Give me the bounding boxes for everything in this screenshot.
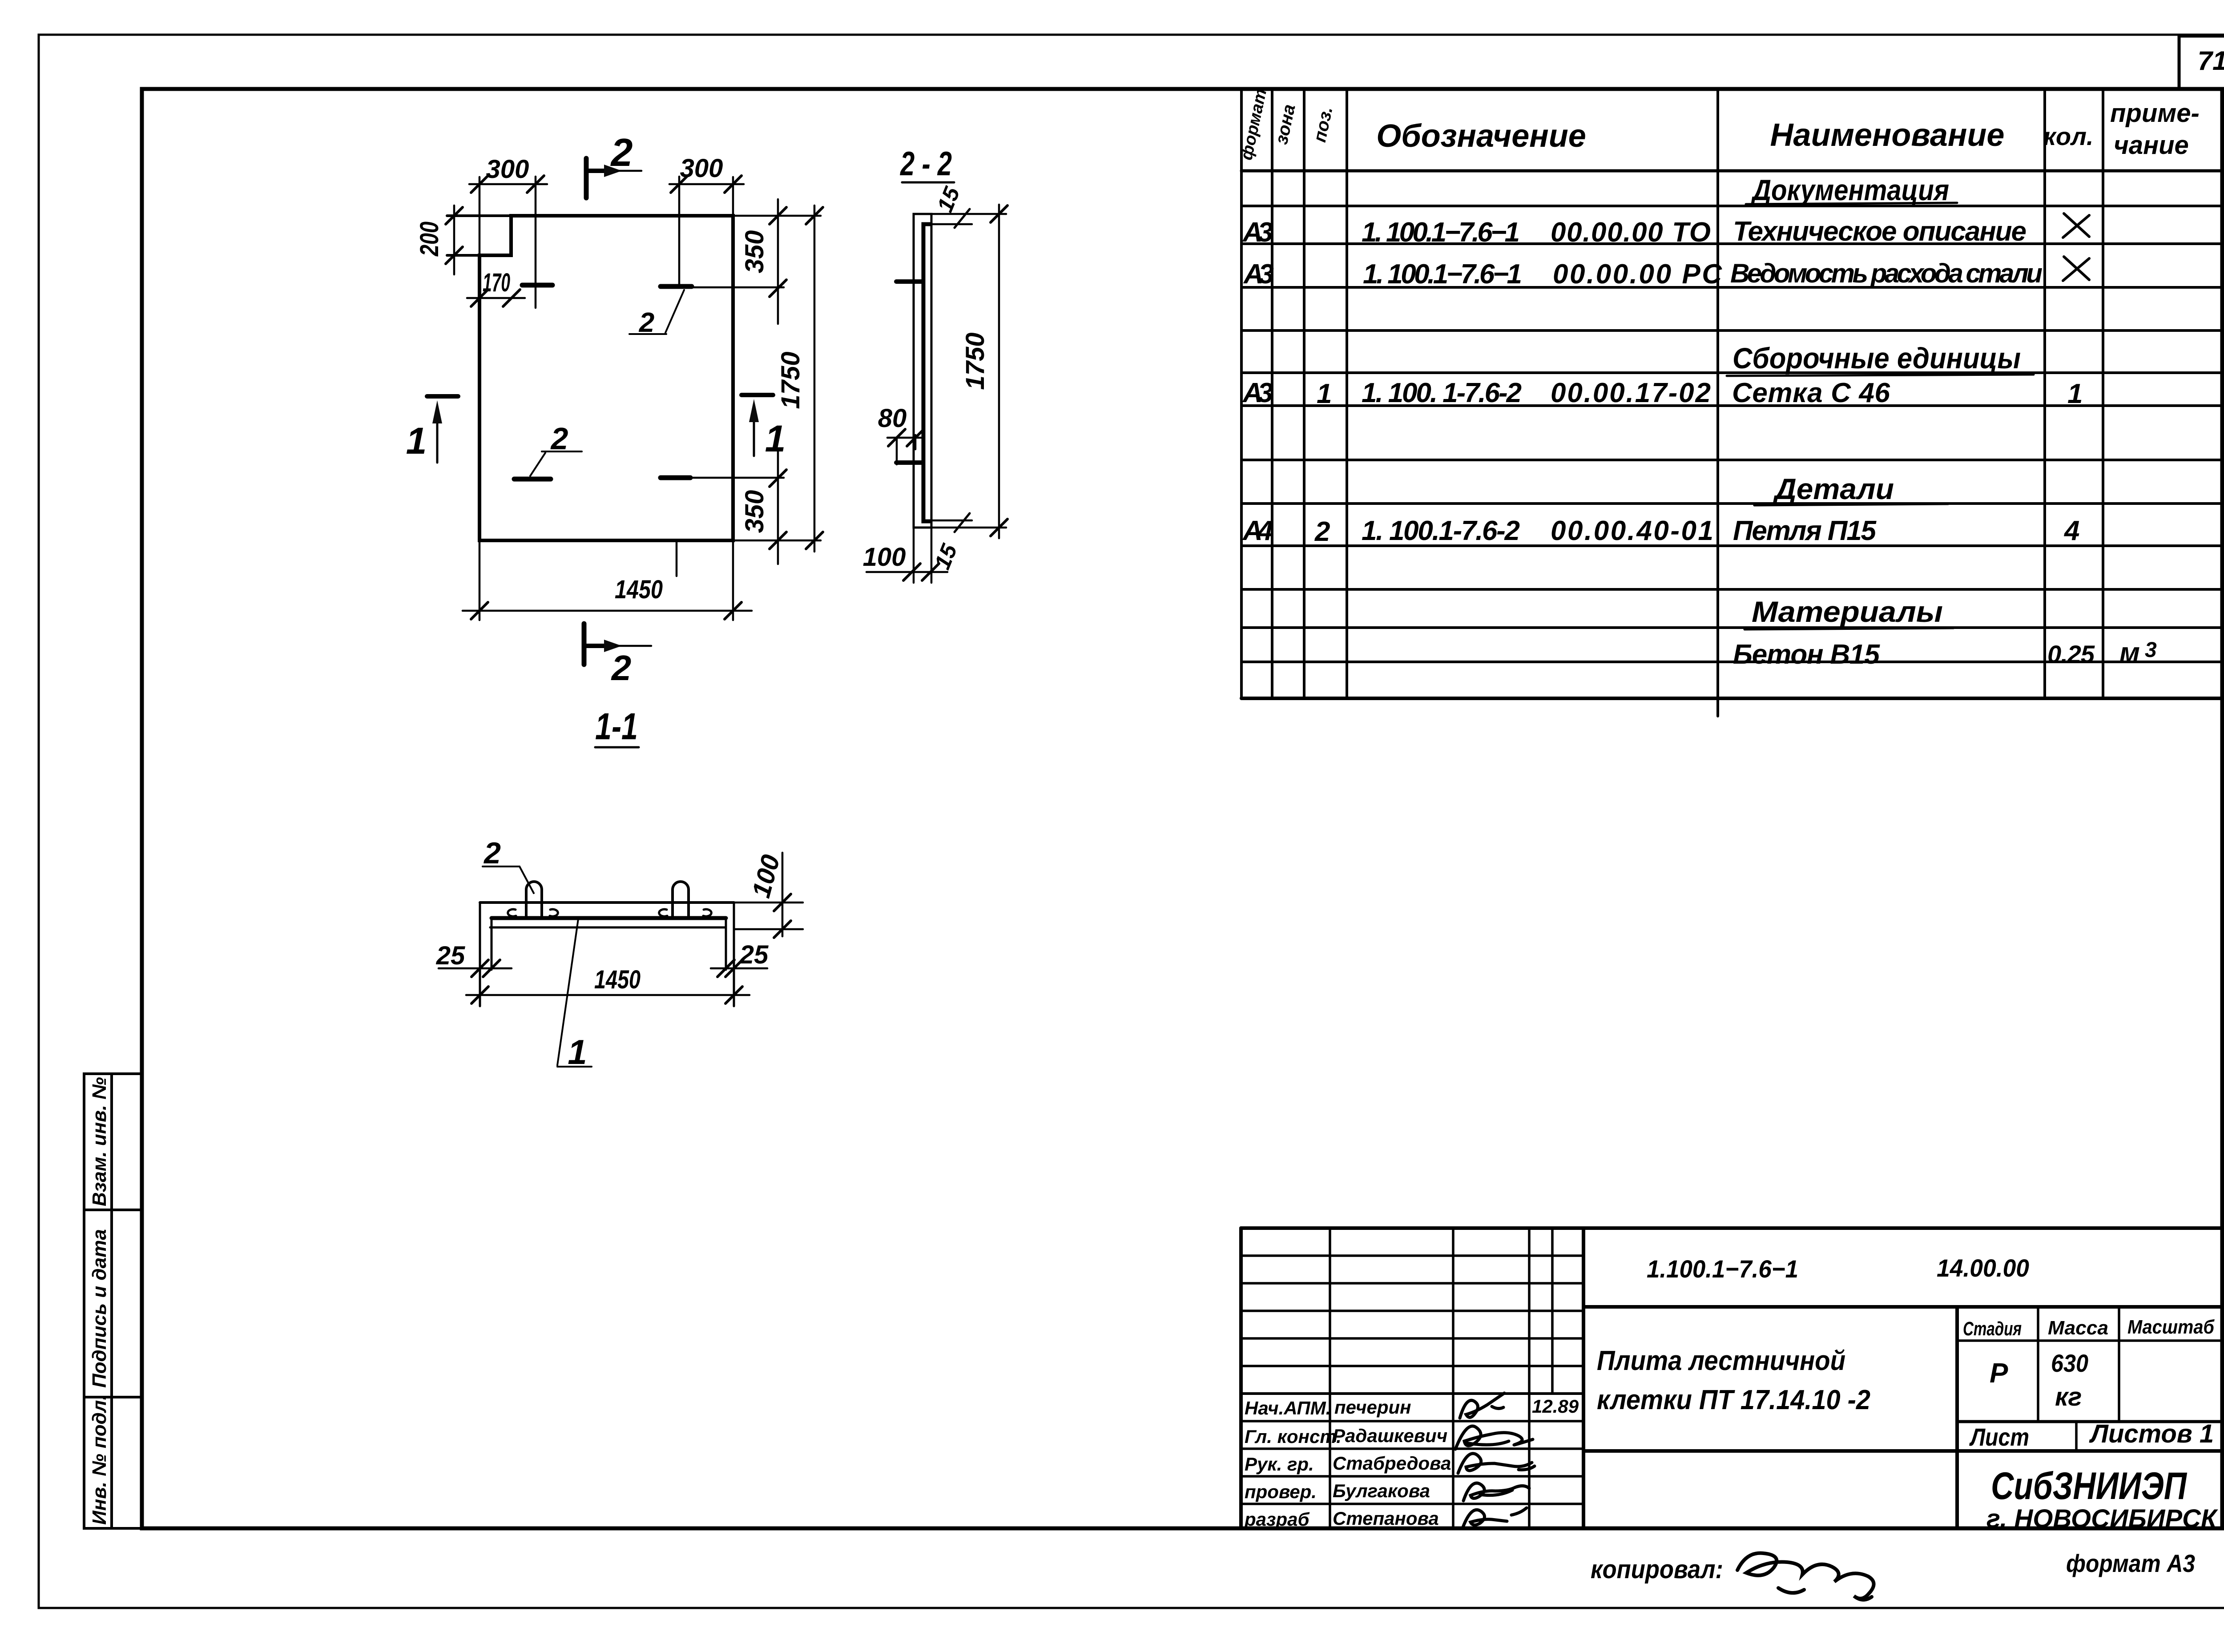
title block document number xyxy=(1647,1254,2029,1283)
table header texts xyxy=(1237,87,2199,162)
dimension 100 bottom of section 2-2 xyxy=(866,528,947,583)
dimension 15 bottom of section 2-2 xyxy=(931,513,972,532)
svg-text:разраб: разраб xyxy=(1244,1509,1309,1530)
table section header: Детали xyxy=(1773,472,1894,505)
svg-text:Ведомость расхода стали: Ведомость расхода стали xyxy=(1730,258,2043,288)
svg-text:1750: 1750 xyxy=(776,351,805,409)
svg-text:Детали: Детали xyxy=(1773,472,1894,505)
title block stage/mass/scale xyxy=(1963,1316,2215,1451)
svg-text:Стадия: Стадия xyxy=(1963,1318,2022,1340)
svg-text:Нач.АПМ.: Нач.АПМ. xyxy=(1245,1398,1331,1418)
svg-text:630: 630 xyxy=(2051,1349,2088,1377)
svg-text:300: 300 xyxy=(680,154,723,183)
svg-text:Материалы: Материалы xyxy=(1752,595,1943,628)
title block roles and names xyxy=(1244,1396,1579,1530)
svg-text:1: 1 xyxy=(406,420,427,462)
section cut marker 2 top xyxy=(586,158,641,198)
svg-text:2: 2 xyxy=(639,307,654,338)
plan extension lines xyxy=(447,177,821,620)
svg-text:00.00.40-01: 00.00.40-01 xyxy=(1551,516,1713,546)
svg-text:СибЗНИИЭП: СибЗНИИЭП xyxy=(1991,1465,2188,1507)
svg-text:Петля П15: Петля П15 xyxy=(1733,516,1877,546)
svg-text:поз.: поз. xyxy=(1310,105,1337,144)
svg-text:копировал:: копировал: xyxy=(1591,1555,1723,1584)
svg-text:Взам. инв. №: Взам. инв. № xyxy=(89,1077,110,1206)
svg-text:00.00.17-02: 00.00.17-02 xyxy=(1551,378,1711,408)
svg-text:1. 100.1−7.6−1: 1. 100.1−7.6−1 xyxy=(1363,259,1522,290)
svg-text:Масса: Масса xyxy=(2048,1317,2108,1339)
leader and label 2 for upper-right rebar xyxy=(629,290,684,334)
section 1-1 right edge and extension xyxy=(733,903,735,1006)
dimension 300 top-left xyxy=(469,176,547,193)
svg-text:Листов 1: Листов 1 xyxy=(2089,1419,2214,1448)
thin line from upper-right dash to 350 extension xyxy=(692,286,784,289)
dimension 200 left xyxy=(446,205,463,274)
svg-text:2: 2 xyxy=(483,836,501,870)
thin line from lower-right dash to 350 extension xyxy=(690,477,784,479)
svg-text:Р: Р xyxy=(1990,1358,2008,1389)
svg-text:А4: А4 xyxy=(1242,516,1273,546)
svg-text:2: 2 xyxy=(610,130,633,174)
svg-text:100: 100 xyxy=(746,852,786,901)
rebar dash lower-left xyxy=(514,477,551,482)
svg-text:Стабредова: Стабредова xyxy=(1333,1453,1451,1474)
svg-text:м: м xyxy=(2119,637,2140,668)
svg-text:приме-: приме- xyxy=(2110,99,2200,128)
title block name: Плита лестничной клетки xyxy=(1597,1346,1870,1415)
svg-text:14.00.00: 14.00.00 xyxy=(1937,1254,2029,1282)
svg-text:Техническое описание: Техническое описание xyxy=(1733,216,2027,247)
rebar dash upper-left xyxy=(522,283,552,288)
leader and label 1 for mesh xyxy=(557,919,592,1067)
svg-text:00.00.00 РС: 00.00.00 РС xyxy=(1553,259,1722,290)
dimension 1450 of section 1-1 xyxy=(466,987,749,1003)
svg-text:1: 1 xyxy=(765,418,786,459)
svg-text:Гл. конст.: Гл. конст. xyxy=(1245,1426,1342,1447)
svg-text:А3: А3 xyxy=(1242,217,1273,248)
svg-text:25: 25 xyxy=(436,941,465,970)
svg-text:1. 100. 1-7.6-2: 1. 100. 1-7.6-2 xyxy=(1362,378,1522,408)
svg-text:1: 1 xyxy=(2067,379,2083,409)
dimension 25 right xyxy=(711,960,767,977)
svg-text:1750: 1750 xyxy=(961,332,990,390)
svg-text:1450: 1450 xyxy=(594,965,641,994)
svg-text:1. 100.1-7.6-2: 1. 100.1-7.6-2 xyxy=(1362,516,1520,546)
left stamp texts xyxy=(89,1077,110,1525)
title block left grid xyxy=(1241,1228,1583,1528)
svg-text:А3: А3 xyxy=(1243,259,1274,290)
svg-text:Булгакова: Булгакова xyxy=(1333,1480,1430,1501)
svg-text:1: 1 xyxy=(1317,379,1332,409)
mesh hook curls xyxy=(508,909,712,916)
page number box xyxy=(2179,36,2224,89)
svg-text:2: 2 xyxy=(611,648,632,688)
svg-text:25: 25 xyxy=(739,940,769,969)
lifting loop П15 left xyxy=(526,882,542,918)
svg-text:Инв. № подл.: Инв. № подл. xyxy=(89,1395,110,1525)
svg-text:зона: зона xyxy=(1272,103,1299,146)
section 2-2 mesh bar xyxy=(923,224,931,521)
table row: Сетка С 46 xyxy=(1242,378,2083,409)
svg-text:2: 2 xyxy=(1314,516,1330,547)
dimension 1450 bottom of plan xyxy=(463,602,752,619)
table section header: Сборочные единицы xyxy=(1732,342,2021,375)
svg-text:3: 3 xyxy=(2145,638,2157,662)
svg-text:Радашкевич: Радашкевич xyxy=(1333,1425,1447,1446)
dimension 170 xyxy=(467,290,525,306)
signature squiggles xyxy=(1455,1393,1535,1528)
title block outer frame xyxy=(1241,1228,2222,1528)
dimension 350 top-right side xyxy=(770,199,786,324)
title block right sub-grid xyxy=(1957,1307,2222,1451)
svg-text:4: 4 xyxy=(2063,516,2079,546)
svg-text:Степанова: Степанова xyxy=(1333,1508,1439,1529)
svg-text:2: 2 xyxy=(550,421,568,456)
dimension 25 left xyxy=(439,960,512,977)
svg-text:170: 170 xyxy=(483,268,510,297)
svg-text:1450: 1450 xyxy=(615,575,663,604)
svg-text:формат А3: формат А3 xyxy=(2066,1549,2195,1577)
specification table grid xyxy=(1241,89,2222,716)
svg-text:2 - 2: 2 - 2 xyxy=(899,145,952,183)
svg-text:Плита лестничной: Плита лестничной xyxy=(1597,1346,1845,1376)
svg-text:А3: А3 xyxy=(1242,378,1273,408)
svg-text:0.25: 0.25 xyxy=(2047,640,2095,668)
table row: Бетон В15 xyxy=(1733,637,2157,670)
svg-text:1-1: 1-1 xyxy=(595,705,638,747)
svg-text:кол.: кол. xyxy=(2043,122,2094,150)
lifting loop П15 right xyxy=(673,882,689,918)
svg-text:1: 1 xyxy=(568,1032,587,1072)
svg-text:1. 100.1−7.6−1: 1. 100.1−7.6−1 xyxy=(1362,217,1520,248)
table row: Техническое описание xyxy=(1242,216,2027,248)
table section header: Документация xyxy=(1751,173,1949,206)
svg-text:Сборочные единицы: Сборочные единицы xyxy=(1732,342,2021,375)
plan plate outline with top-left notch xyxy=(479,216,733,540)
svg-text:г. НОВОСИБИРСК: г. НОВОСИБИРСК xyxy=(1986,1504,2218,1533)
section 1-1 left edge and extension xyxy=(479,903,481,1006)
table row: Петля П15 xyxy=(1242,516,2079,547)
svg-text:200: 200 xyxy=(415,222,444,257)
svg-text:Подпись и дата: Подпись и дата xyxy=(89,1229,110,1388)
dimension 1750 of section 2-2 xyxy=(931,205,1007,538)
dimension 1750 right side xyxy=(806,205,823,552)
leader and label 2 for lower-left rebar xyxy=(530,451,582,476)
section cut marker 2 bottom xyxy=(584,624,651,665)
dimension 300 top-right xyxy=(669,176,744,193)
svg-text:Масштаб: Масштаб xyxy=(2127,1316,2215,1338)
svg-text:12.89: 12.89 xyxy=(1532,1396,1579,1417)
rebar dash lower-right xyxy=(661,475,690,480)
dimension 100 right of section 1-1 xyxy=(734,853,803,938)
svg-text:печерин: печерин xyxy=(1334,1397,1411,1418)
svg-text:провер.: провер. xyxy=(1245,1481,1317,1502)
leader and label 2 for loops xyxy=(483,866,534,893)
svg-text:71: 71 xyxy=(2198,46,2224,76)
svg-text:кг: кг xyxy=(2055,1382,2082,1411)
quantity X mark row 3 xyxy=(2063,257,2089,281)
section 1-1 notch verticals xyxy=(491,918,493,970)
svg-text:Сетка С 46: Сетка С 46 xyxy=(1732,378,1890,408)
rebar dash upper-right xyxy=(661,284,692,289)
dimension 80 xyxy=(887,429,924,464)
section 1-1 mesh bar xyxy=(492,916,726,920)
svg-text:100: 100 xyxy=(863,543,906,572)
table section header: Материалы xyxy=(1752,595,1943,628)
title block organization: СибЗНИИЭП xyxy=(1986,1465,2218,1533)
svg-text:00.00.00 ТО: 00.00.00 ТО xyxy=(1551,217,1711,248)
копировал signature squiggle xyxy=(1737,1553,1874,1600)
section 1-1 slab top edge xyxy=(480,901,734,904)
svg-text:350: 350 xyxy=(740,490,769,533)
svg-text:1.100.1−7.6−1: 1.100.1−7.6−1 xyxy=(1647,1255,1798,1283)
section cut marker 1 left xyxy=(427,396,458,463)
dimension 350 bottom-right side xyxy=(770,449,786,564)
svg-text:15: 15 xyxy=(932,183,965,216)
dimension 15 top of section 2-2 xyxy=(931,209,972,228)
svg-text:Документация: Документация xyxy=(1751,173,1949,206)
svg-text:80: 80 xyxy=(878,404,907,433)
section 1-1 slab bottom line xyxy=(490,927,726,929)
svg-text:клетки ПТ 17.14.10 -2: клетки ПТ 17.14.10 -2 xyxy=(1597,1385,1870,1415)
svg-text:Бетон В15: Бетон В15 xyxy=(1733,639,1881,670)
svg-text:Рук. гр.: Рук. гр. xyxy=(1245,1454,1314,1475)
left stamp boxes xyxy=(84,1074,142,1528)
section 2-2 rebar tick lower xyxy=(896,460,923,465)
section 2-2 rebar tick upper xyxy=(896,279,923,284)
svg-text:чание: чание xyxy=(2114,131,2189,160)
table row: Ведомость расхода стали xyxy=(1243,258,2043,290)
section cut marker 1 right xyxy=(741,395,773,456)
svg-text:Наименование: Наименование xyxy=(1770,117,2005,153)
svg-text:300: 300 xyxy=(486,155,529,184)
svg-text:Лист: Лист xyxy=(1969,1423,2029,1451)
section 2-2 slab profile xyxy=(914,214,931,528)
svg-text:350: 350 xyxy=(740,230,769,274)
svg-text:Обозначение: Обозначение xyxy=(1376,118,1586,154)
quantity X mark row 2 xyxy=(2063,214,2089,238)
